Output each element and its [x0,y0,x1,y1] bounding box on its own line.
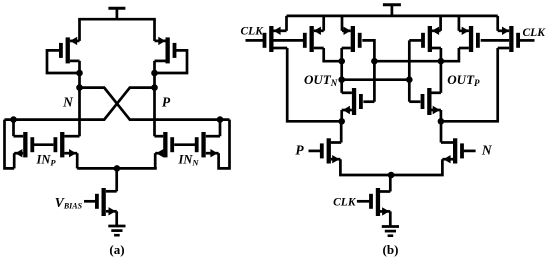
wire: VDD rail (a) [78,18,156,21]
junction OUT_N [338,76,345,83]
wire: right gate link vertical [408,40,411,101]
pmos M15 [498,26,520,52]
VDD supply symbol (a) [108,8,125,19]
svg-text:OUTP: OUTP [447,72,480,88]
wire: M9 source to rail [322,16,325,31]
wire: M8 drain to left internal node [287,48,342,121]
wire: M2 gate-drain loop [155,50,188,73]
svg-text:P: P [295,143,304,158]
wire: M1 gate-drain loop [47,50,80,73]
nmos M18 [369,188,390,216]
junction OUT_P upper [438,58,445,65]
wire: CLK gate line left [246,39,264,42]
wire: M7 source to ground [115,211,118,226]
nmos M11 [342,88,363,115]
wire: M16 source to tail [340,159,391,175]
wire: M11 source drop [340,110,343,121]
wire: M2 source to rail [153,19,156,41]
wire: M3 source drop [13,153,16,168]
junction right cap drain [217,116,224,123]
junction right internal node [438,118,445,125]
svg-text:VBIAS: VBIAS [55,195,83,211]
svg-text:N: N [62,94,74,109]
wire: M10 source to rail [341,16,344,31]
nmos M5 [155,132,175,157]
ground symbol (a) [108,226,125,235]
nmos M17 [441,138,464,163]
wire: M17 source to tail [391,159,442,175]
svg-text:OUTN: OUTN [304,72,338,88]
wire: M9 gate to CLK line [273,39,303,42]
wire: M15 drain to right internal node [441,48,498,121]
svg-text:CLK: CLK [523,27,547,39]
svg-text:P: P [162,94,171,109]
nmos M7 [95,188,117,216]
wire: M13 source to rail [439,16,442,31]
wire: M4 source down to tail [76,153,79,168]
junction left cap drain [10,116,17,123]
nmos M6 [195,132,220,157]
nmos M16 [320,138,341,163]
wire: M7 drain to tail node [115,168,118,191]
junction tail node [114,165,121,172]
wire: M10 gate cross link down [362,40,374,101]
wire: right cap rail loop [219,120,230,169]
nmos M4 [54,132,80,157]
junction M1 gate-drain [76,70,83,77]
VDD supply symbol (b) [383,5,401,16]
wire: M13 gate cross link [409,39,422,42]
junction tail node (b) [388,172,395,179]
ground symbol (b) [382,227,399,236]
junction node P [151,84,158,91]
junction node N [76,84,83,91]
wire: M11 gate link [363,100,374,103]
wire: M10 drain to OUT_N [340,48,343,61]
wire: M13 drain to OUT_P [440,48,443,61]
wire: M2 drain down to node P [153,61,156,136]
wire: cross-couple node N to right caps [80,88,230,120]
wire: M12 source drop [440,110,443,121]
wire: CLK tail gate line [357,200,370,203]
svg-text:CLK: CLK [241,26,265,38]
wire: VDD rail (b) [287,15,498,18]
wire: M1 source to rail [78,19,81,41]
pmos M9 [303,26,324,52]
pmos M13 [421,26,441,52]
nmos M12 [421,88,441,115]
svg-text:INN: INN [178,152,200,167]
pmos M10 [342,26,362,52]
wire: M1 drain down to node N [78,61,81,136]
wire: left cap drain riser [12,120,15,137]
wire: N gate stub [464,150,476,153]
wire: CLK gate line right [520,39,535,42]
junction OUT_N upper [338,58,345,65]
wire: M18 source to ground [389,211,392,226]
svg-text:INP: INP [36,152,57,167]
pmos M2 [155,37,177,64]
wire: tail node horizontal [77,167,157,170]
wire: V_BIAS gate wire [84,200,95,203]
nmos M3 [14,132,35,157]
wire: M18 drain to tail node [389,175,392,192]
wire: M14 gate to CLK line [481,39,510,42]
wire: M9 drain to OUT_N [324,48,342,61]
junction cross lower [406,76,413,83]
wire: cross-couple node P to left caps [5,88,155,120]
wire: M15 source to rail [496,16,499,31]
wire: left internal node to P input drain [340,121,343,142]
wire: right internal node to N input drain [440,121,443,142]
wire: M14 source to rail [458,16,461,31]
wire: M12 gate link [409,100,420,103]
wire: right cap drain riser [219,120,222,137]
svg-text:CLK: CLK [333,196,357,208]
wire: cross upper horizontal to OUT_P [374,60,441,63]
wire: OUT_N vertical [340,61,343,93]
junction left internal node [338,118,345,125]
wire: left cap rail loop [5,120,15,169]
junction M2 gate-drain [151,70,158,77]
wire: IN_N gate wire [174,143,195,146]
wire: IN_P gate wire [34,143,53,146]
wire: M8 source to rail [285,16,288,31]
pmos M14 [459,26,480,52]
pmos M8 [263,26,288,52]
wire: OUT_N horizontal to right gates [342,78,410,81]
wire: P gate stub [309,150,321,153]
pmos M1 [59,37,80,64]
wire: OUT_P vertical [440,61,443,93]
svg-text:(a): (a) [109,242,124,257]
svg-text:N: N [481,143,493,158]
wire: M5 source down to tail [154,153,157,168]
svg-text:(b): (b) [383,242,399,257]
junction cross upper [371,58,378,65]
wire: M14 drain to OUT_P [441,48,459,61]
